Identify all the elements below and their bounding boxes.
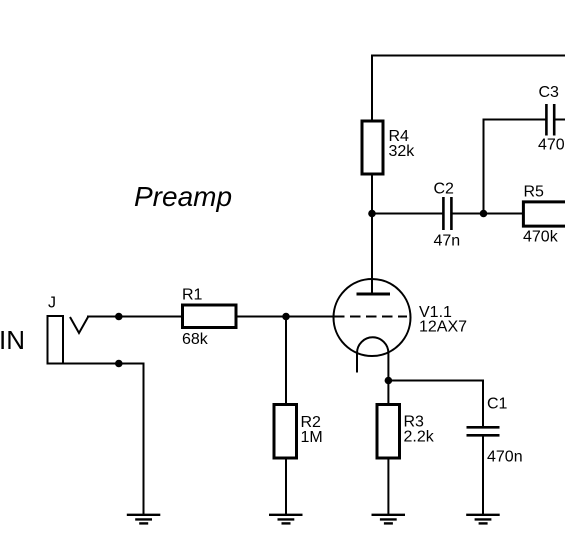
ground C1 — [466, 515, 500, 524]
resistor R1 — [183, 305, 237, 328]
junction sleeve node — [115, 360, 123, 368]
wire coupling node to R5 — [484, 213, 524, 215]
svg-text:47n: 47n — [434, 233, 461, 250]
svg-text:J: J — [48, 295, 56, 312]
junction anode node — [368, 210, 376, 218]
svg-text:12AX7: 12AX7 — [419, 319, 467, 336]
wire jack sleeve — [48, 364, 144, 515]
wire cathode node to C1 — [388, 381, 483, 428]
wire jack tip to R1 — [87, 316, 181, 318]
resistor R2 — [274, 405, 297, 459]
svg-text:C1: C1 — [487, 396, 508, 413]
wire top supply rail — [372, 56, 565, 120]
svg-text:R1: R1 — [182, 287, 203, 304]
svg-text:470k: 470k — [523, 229, 559, 246]
svg-text:R5: R5 — [524, 184, 545, 201]
triode V1.1 — [334, 279, 411, 381]
junction tip node — [115, 313, 123, 321]
resistor R3 — [377, 405, 400, 459]
junction cathode node — [385, 377, 393, 385]
wire C1 to ground — [482, 435, 484, 514]
svg-text:32k: 32k — [389, 143, 416, 160]
ground jack — [127, 515, 161, 524]
wire anode node to C2 — [372, 213, 444, 215]
ground R3 — [372, 515, 406, 524]
svg-text:IN: IN — [0, 325, 25, 355]
svg-text:470: 470 — [538, 137, 565, 154]
input jack J — [48, 316, 89, 364]
wire coupling node up to C3 — [484, 120, 547, 214]
resistor R5 — [523, 202, 565, 226]
capacitor C1 — [467, 427, 500, 435]
wire R2 to ground — [285, 458, 287, 514]
svg-text:Preamp: Preamp — [134, 181, 232, 212]
svg-text:C2: C2 — [434, 181, 455, 198]
svg-text:470n: 470n — [487, 449, 523, 466]
wire anode node to plate — [371, 214, 373, 295]
capacitor C2 — [443, 197, 451, 230]
ground R2 — [269, 515, 303, 524]
wire grid node down to R2 — [285, 317, 287, 405]
junction coupling node — [480, 210, 488, 218]
svg-text:1M: 1M — [301, 429, 323, 446]
wire C3 out — [554, 119, 565, 121]
wire R4 to anode node — [371, 174, 373, 214]
capacitor C3 — [546, 104, 554, 136]
svg-text:68k: 68k — [182, 331, 209, 348]
wire cathode node to R3 — [387, 381, 389, 405]
resistor R4 — [362, 121, 383, 174]
wire R3 to ground — [387, 458, 389, 514]
svg-text:C3: C3 — [539, 84, 560, 101]
wire R1 to grid node — [238, 316, 334, 318]
junction grid node — [282, 313, 290, 321]
wire C2 to coupling node — [451, 213, 483, 215]
svg-text:2.2k: 2.2k — [404, 429, 435, 446]
